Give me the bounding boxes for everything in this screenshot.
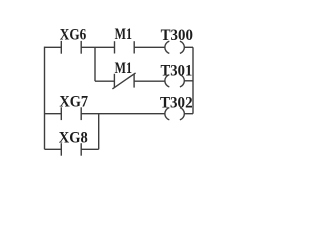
svg-text:T302: T302 bbox=[160, 94, 193, 111]
svg-text:XG6: XG6 bbox=[60, 27, 87, 44]
svg-text:T301: T301 bbox=[161, 63, 193, 80]
svg-text:M1: M1 bbox=[115, 26, 132, 43]
svg-text:T300: T300 bbox=[161, 27, 193, 44]
svg-text:XG7: XG7 bbox=[59, 93, 88, 110]
svg-text:M1: M1 bbox=[115, 60, 132, 77]
svg-text:XG8: XG8 bbox=[59, 130, 88, 147]
